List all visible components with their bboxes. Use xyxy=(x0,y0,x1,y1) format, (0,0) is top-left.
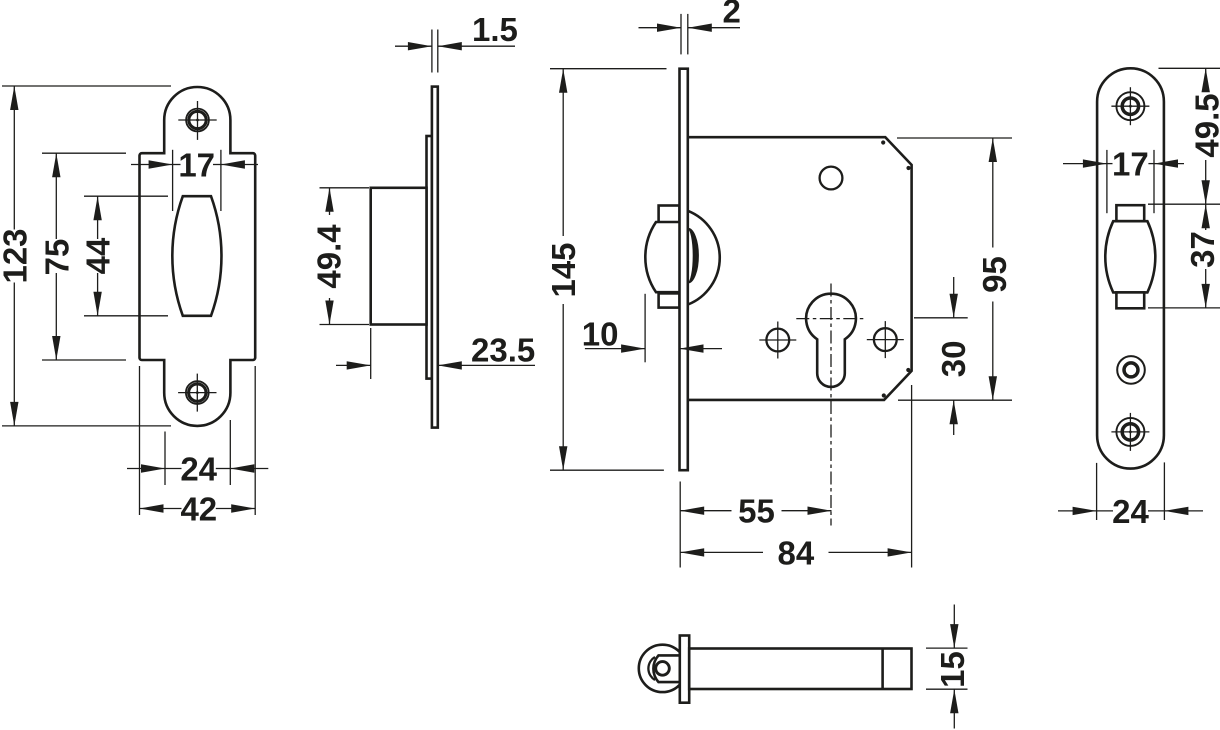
dim 1.5 arrows xyxy=(408,42,432,50)
dim 49.5 line xyxy=(1205,68,1207,91)
dim 123 line xyxy=(13,86,15,230)
dim 17 extension lines xyxy=(172,150,174,211)
top screw hole rings xyxy=(1122,98,1138,114)
roller groove arc xyxy=(648,657,655,680)
dim 75 extension lines xyxy=(42,152,126,154)
dim 23.5 arrows xyxy=(347,361,371,369)
top screw hole rings xyxy=(189,111,206,128)
dim 30 arrows xyxy=(950,294,958,318)
top screw hole crosshair xyxy=(1111,105,1149,107)
bottom screw hole crosshair xyxy=(178,392,216,394)
dim 49.4 line xyxy=(329,188,331,215)
dim 42 extension lines xyxy=(139,366,141,515)
axle hole xyxy=(656,662,670,676)
dim 30 extension line xyxy=(914,317,968,319)
dim 15 arrows xyxy=(950,624,958,648)
roller barrel xyxy=(1105,221,1155,292)
dim 24 extension lines xyxy=(1096,463,1098,520)
dim 42 arrows xyxy=(140,504,164,512)
plate outline xyxy=(140,87,256,426)
dim 1.5 extension lines xyxy=(431,30,433,73)
dim 24 arrows xyxy=(1073,507,1097,515)
dim 55 line xyxy=(680,510,731,512)
svg-text:24: 24 xyxy=(180,451,217,488)
svg-text:24: 24 xyxy=(1112,493,1149,530)
dim 17 line xyxy=(131,164,173,166)
dim 75 arrows xyxy=(52,153,60,177)
dim 2 line xyxy=(639,27,682,29)
svg-text:55: 55 xyxy=(738,493,775,530)
face plate side xyxy=(432,87,438,428)
chamfer rivet dots xyxy=(881,140,885,144)
dim 15 line xyxy=(953,605,955,649)
dim 24 extension lines xyxy=(164,432,166,486)
dim 30 line xyxy=(953,277,955,318)
dim 95 extension lines xyxy=(897,137,1012,139)
svg-text:15: 15 xyxy=(934,651,971,688)
dim 44 arrows xyxy=(93,196,101,220)
dim 123 arrows xyxy=(10,86,18,110)
lock case outline xyxy=(688,137,912,400)
top hole xyxy=(820,167,843,190)
svg-text:95: 95 xyxy=(976,256,1013,293)
dim 49.4 arrows xyxy=(325,188,333,212)
dim 84 extension line xyxy=(911,385,913,568)
svg-text:44: 44 xyxy=(80,237,117,274)
svg-text:42: 42 xyxy=(180,491,217,528)
dim 17 extension lines xyxy=(1106,150,1108,213)
svg-text:123: 123 xyxy=(0,228,33,283)
bottom screw hole crosshair xyxy=(1111,431,1149,433)
dim 15 extension lines xyxy=(926,647,968,649)
lock case side xyxy=(371,188,427,325)
dim 84 line xyxy=(680,551,763,553)
roller bracket xyxy=(653,655,679,682)
roller top guide xyxy=(1116,205,1144,221)
dim 17 arrows xyxy=(1083,159,1107,167)
right fixing hole xyxy=(874,328,897,351)
dim 44 extension lines xyxy=(84,195,168,197)
svg-text:1.5: 1.5 xyxy=(472,11,518,48)
dim 37 extension line xyxy=(1148,307,1220,309)
svg-text:30: 30 xyxy=(935,341,972,378)
left fixing hole xyxy=(766,329,789,352)
cylinder centerline vertical xyxy=(830,284,832,526)
dim 24 line xyxy=(127,468,165,470)
svg-text:10: 10 xyxy=(582,315,619,352)
dim 95 arrows xyxy=(989,138,997,162)
dim 42 line xyxy=(140,508,182,510)
svg-text:17: 17 xyxy=(1112,146,1149,183)
roller edge crescent behind plate xyxy=(688,229,698,283)
dim 44 line xyxy=(97,196,99,239)
dim 23.5 extension line xyxy=(370,328,372,379)
dim 123 extension lines xyxy=(2,85,171,87)
plate outline xyxy=(1097,68,1164,468)
svg-text:2: 2 xyxy=(723,0,741,29)
bolt roller barrel xyxy=(645,222,679,292)
barrel cutout xyxy=(172,196,221,316)
dim 95 line xyxy=(992,138,994,248)
dim 55 arrows xyxy=(680,507,704,515)
roller wheel xyxy=(639,645,686,692)
svg-text:145: 145 xyxy=(545,242,582,297)
dim 10 line xyxy=(585,348,645,350)
dim 23.5 line xyxy=(336,364,371,366)
dim 17 arrows xyxy=(149,160,173,168)
bolt bottom guide xyxy=(659,293,680,307)
under plate strip xyxy=(427,136,432,379)
face plate xyxy=(680,69,688,471)
top screw hole crosshair xyxy=(178,119,216,121)
svg-text:84: 84 xyxy=(778,534,815,571)
dim 1.5 line xyxy=(395,45,432,47)
roller bottom guide xyxy=(1116,292,1144,308)
dim 17 line xyxy=(1063,163,1107,165)
svg-text:23.5: 23.5 xyxy=(471,332,535,369)
dim 49.5 extension lines xyxy=(1159,67,1220,69)
svg-text:49.4: 49.4 xyxy=(310,224,347,289)
dim 2 extension lines xyxy=(680,14,682,55)
bolt bar xyxy=(689,649,911,690)
dim 49.5 arrows xyxy=(1202,68,1210,92)
face plate cross section xyxy=(680,636,689,703)
dim 84 arrows xyxy=(680,548,704,556)
cylinder centerline horizontal xyxy=(796,318,866,320)
svg-text:37: 37 xyxy=(1184,231,1220,268)
dim 24 line xyxy=(1058,510,1097,512)
dim 10 arrows xyxy=(621,344,645,352)
dim 37 line xyxy=(1205,204,1207,230)
middle ring hole xyxy=(1117,356,1145,384)
dim 10 extension line xyxy=(644,294,646,363)
dim 145 arrows xyxy=(559,69,567,93)
hook bolt arc xyxy=(688,211,720,305)
svg-text:17: 17 xyxy=(178,147,215,184)
dim 24 arrows xyxy=(141,464,165,472)
bottom screw hole rings xyxy=(189,384,206,401)
bar end cap line xyxy=(881,649,884,690)
dim 75 line xyxy=(55,153,57,239)
svg-text:49.5: 49.5 xyxy=(1188,93,1220,157)
dim 37 arrows xyxy=(1202,204,1210,228)
dim 145 extension lines xyxy=(550,68,667,70)
dim 2 arrows xyxy=(657,24,681,32)
svg-text:75: 75 xyxy=(38,239,75,276)
dim 145 line xyxy=(562,69,564,236)
dim 55 extension line xyxy=(679,482,681,568)
bolt top guide xyxy=(659,206,680,223)
bottom screw hole rings xyxy=(1122,424,1138,440)
euro cylinder profile xyxy=(806,294,856,387)
dim 49.4 extension lines xyxy=(320,187,370,189)
